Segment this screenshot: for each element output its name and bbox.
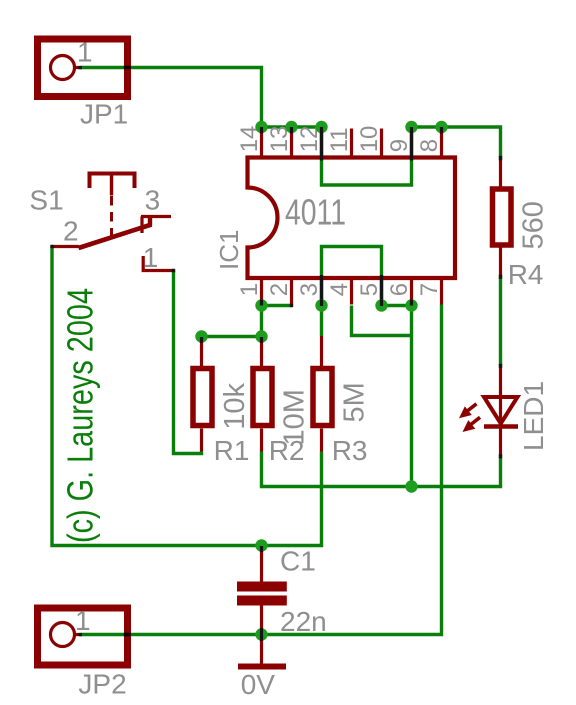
IC pins top 14..8 bbox=[262, 127, 442, 158]
wire S1 pin2 down to C1 top and R3 bottom bbox=[52, 247, 322, 546]
connector JP2 bbox=[38, 608, 128, 665]
switch S1 bbox=[50, 174, 175, 273]
resistor R3 bbox=[313, 336, 332, 452]
capacitor C1 bbox=[237, 546, 287, 635]
LED LED1 bbox=[459, 364, 518, 459]
node pin12 bbox=[315, 121, 327, 133]
svg-text:IC1: IC1 bbox=[214, 230, 244, 270]
svg-text:1: 1 bbox=[75, 605, 91, 636]
svg-text:22n: 22n bbox=[280, 606, 327, 637]
svg-text:5: 5 bbox=[356, 283, 383, 296]
svg-text:6: 6 bbox=[386, 283, 413, 296]
svg-text:3: 3 bbox=[145, 185, 161, 216]
wire pins 9-8 to R4 top bbox=[412, 127, 501, 158]
svg-text:JP2: JP2 bbox=[78, 669, 126, 700]
wire-over-border crossing JP2 bbox=[124, 633, 131, 637]
svg-text:R3: R3 bbox=[332, 435, 368, 466]
svg-text:4011: 4011 bbox=[285, 192, 346, 233]
wire pin7 down to ground rail to JP2 bbox=[81, 305, 442, 635]
wire top bus pins 14-13-12 bbox=[262, 125, 322, 128]
wire R2 bottom to LED cathode bbox=[262, 452, 501, 487]
node R1 top bbox=[195, 330, 207, 342]
svg-text:1: 1 bbox=[77, 37, 93, 68]
wire pin1 to pin2 bbox=[262, 304, 292, 307]
wire net through IC pins 12 to 9 bbox=[322, 127, 412, 185]
svg-text:10: 10 bbox=[356, 126, 383, 153]
wire pin3 to R3 top bbox=[320, 306, 323, 337]
arrow 1 bbox=[466, 404, 477, 412]
IC pins bottom 1..7 bbox=[262, 278, 442, 306]
resistor R2 bbox=[253, 337, 272, 452]
svg-text:(c) G. Laureys 2004: (c) G. Laureys 2004 bbox=[60, 288, 101, 543]
svg-text:LED1: LED1 bbox=[518, 381, 549, 451]
node LED cathode bbox=[405, 480, 417, 492]
connector JP1 bbox=[38, 39, 128, 97]
IC U1 body 4011 bbox=[248, 158, 456, 279]
wire S1 pin1 down to R1 bottom bbox=[174, 271, 202, 454]
resistor R1 bbox=[193, 337, 212, 452]
svg-text:11: 11 bbox=[326, 127, 353, 152]
node pin13 bbox=[285, 121, 297, 133]
svg-text:9: 9 bbox=[386, 139, 413, 152]
svg-text:2: 2 bbox=[63, 216, 79, 247]
svg-text:10k: 10k bbox=[219, 383, 251, 430]
node pin3 bbox=[315, 299, 327, 311]
svg-text:2: 2 bbox=[266, 283, 293, 296]
node C1 bottom bbox=[255, 628, 267, 640]
ground 0V bbox=[238, 635, 286, 667]
svg-text:8: 8 bbox=[416, 139, 443, 152]
wire pin6 column down bbox=[410, 306, 413, 487]
wire pin4 to pin6 column bbox=[352, 306, 412, 336]
node R2 top bbox=[255, 330, 267, 342]
wire JP1 to pin14 column bbox=[81, 68, 262, 128]
svg-text:R1: R1 bbox=[214, 435, 250, 466]
svg-text:1: 1 bbox=[236, 283, 263, 296]
svg-text:C1: C1 bbox=[280, 546, 316, 577]
svg-text:R4: R4 bbox=[508, 259, 544, 290]
node pin8 bbox=[435, 121, 447, 133]
junction overlap marks bbox=[202, 127, 442, 641]
wire R4 bottom to LED anode bbox=[499, 277, 502, 366]
svg-text:560: 560 bbox=[518, 201, 550, 249]
arrow 2 bbox=[470, 417, 481, 425]
wire pin1 down to R2 top node bbox=[260, 306, 263, 337]
svg-text:1: 1 bbox=[143, 242, 159, 273]
svg-text:4: 4 bbox=[326, 283, 353, 296]
svg-text:5M: 5M bbox=[338, 382, 370, 422]
svg-text:R2: R2 bbox=[269, 435, 305, 466]
node pin1 bbox=[255, 299, 267, 311]
svg-text:JP1: JP1 bbox=[80, 99, 128, 130]
pin overlap marks bbox=[262, 127, 442, 307]
resistor R4 bbox=[493, 156, 512, 279]
svg-text:S1: S1 bbox=[29, 185, 63, 216]
svg-text:0V: 0V bbox=[241, 669, 276, 700]
wire pins 5-6 bbox=[382, 304, 412, 307]
node pin5 bbox=[375, 299, 387, 311]
wire R1 top to R2 top bbox=[202, 335, 262, 338]
svg-text:3: 3 bbox=[296, 283, 323, 296]
svg-text:7: 7 bbox=[416, 283, 443, 296]
wire-over-border crossing JP1 bbox=[124, 66, 131, 70]
wire net through IC pins 3 to 5 bbox=[322, 247, 382, 306]
node C1 top bbox=[255, 539, 267, 551]
node pin14 bbox=[255, 121, 267, 133]
node pin9 bbox=[405, 121, 417, 133]
node pin6 bbox=[405, 299, 417, 311]
